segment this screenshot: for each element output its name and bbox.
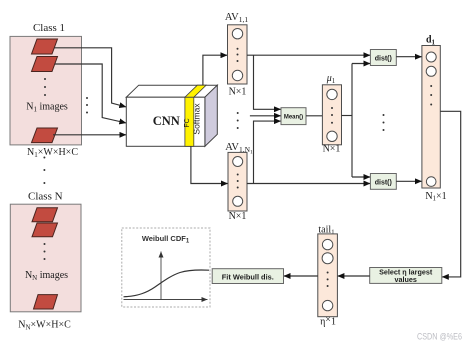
AV1N1 dots: [237, 174, 239, 189]
CNN box top face: [126, 85, 217, 97]
fit weibull box: [212, 269, 283, 284]
d1 box: [422, 46, 440, 189]
weibull cdf curve: [124, 270, 210, 297]
svg-text:N×1: N×1: [229, 87, 247, 98]
tail1 circle 2: [322, 253, 333, 264]
FC layer yellow strip top: [185, 85, 206, 97]
class N box: [10, 204, 81, 312]
wire branch AV11 down to Mean: [254, 55, 282, 109]
select box: [370, 268, 442, 284]
d1 dots: [430, 85, 432, 106]
image 3 of class 1: [32, 128, 58, 143]
svg-text:NN images: NN images: [25, 270, 68, 282]
wire dist1 to d1: [396, 56, 422, 58]
wire image1 to CNN: [55, 48, 127, 107]
CNN box front face: [126, 97, 205, 146]
dots between AV boxes: [237, 112, 239, 129]
d1 circle 1: [426, 52, 436, 62]
svg-text:CSDN @%E6: CSDN @%E6: [417, 332, 462, 342]
wire dist2 to d1: [396, 180, 422, 182]
wire image3 to CNN: [53, 134, 126, 136]
svg-text:N1×1: N1×1: [425, 191, 446, 203]
wire image2 to CNN: [55, 64, 127, 123]
CNN box side face: [205, 85, 217, 146]
image 3 of class N: [34, 295, 58, 309]
dist1 box: [370, 50, 396, 66]
mu1 bottom circle: [327, 131, 337, 141]
tail1 dots: [327, 272, 329, 288]
svg-text:FC: FC: [184, 118, 191, 127]
svg-text:CNN: CNN: [153, 114, 180, 128]
wire tail to fit box: [284, 275, 318, 277]
wire Mean to mu: [306, 115, 322, 117]
image 2 of class N: [32, 223, 58, 237]
wire CNN to AV11: [203, 55, 228, 85]
tail1 box: [318, 234, 338, 317]
image 2 of class 1: [32, 57, 58, 72]
dots between class boxes: [43, 157, 45, 185]
mu1 box: [322, 85, 341, 145]
wire AV11 to dist1: [247, 54, 370, 56]
tail1 bottom circle: [322, 300, 332, 310]
wire select to tail: [337, 275, 369, 277]
svg-text:Class N: Class N: [28, 191, 63, 203]
svg-text:N×1: N×1: [323, 143, 341, 154]
wire bus to dist1: [352, 63, 370, 65]
AV1N1 bottom circle: [233, 196, 243, 206]
plot y axis: [160, 252, 162, 300]
dist2 box: [370, 174, 396, 190]
class 1 box: [10, 36, 82, 144]
AV11 box: [228, 25, 248, 84]
wire d1 to select box: [440, 111, 460, 277]
svg-text:dist(): dist(): [375, 56, 392, 63]
dots in class N box: [44, 243, 46, 260]
wire CNN to AV1N1: [191, 146, 228, 183]
tail1 circle 1: [322, 239, 332, 249]
AV11 bottom circle: [232, 70, 242, 80]
AV1N1 box: [228, 152, 247, 211]
svg-text:N×1: N×1: [229, 211, 247, 222]
svg-text:N1 images: N1 images: [26, 102, 68, 114]
wire middle to Mean: [250, 115, 281, 117]
wire AV1N1 to dist2: [247, 183, 371, 185]
wire mu to vertical bus: [342, 115, 353, 117]
image 1 of class 1: [32, 39, 58, 54]
FC layer yellow strip front: [185, 97, 194, 146]
mu1 dots: [331, 107, 333, 124]
dots between dist boxes: [383, 114, 385, 131]
plot x axis: [124, 299, 208, 301]
mu1 top circle: [327, 89, 337, 99]
svg-text:Fit Weibull dis.: Fit Weibull dis.: [222, 273, 274, 282]
AV11 dots: [237, 48, 239, 62]
svg-text:dist(): dist(): [375, 179, 392, 186]
AV11 top circle: [232, 29, 242, 39]
svg-text:Weibull CDF1: Weibull CDF1: [142, 234, 190, 245]
image 1 of class N: [32, 208, 58, 222]
weibull cdf plot box: [122, 228, 210, 307]
d1 circle 2: [426, 66, 436, 76]
AV1N1 top circle: [233, 157, 243, 167]
wire bus to dist2: [352, 176, 370, 178]
dots in class 1 box: [44, 78, 46, 96]
svg-text:Mean(): Mean(): [284, 115, 303, 121]
vertical bus mu to dist boxes: [351, 64, 353, 178]
Mean() box: [281, 108, 306, 125]
svg-text:values: values: [395, 275, 417, 284]
svg-text:Softmax: Softmax: [191, 103, 201, 135]
dots right of class 1 box: [86, 97, 88, 114]
svg-text:Class 1: Class 1: [33, 22, 65, 34]
d1 bottom circle: [426, 177, 436, 187]
wire branch AV1N1 up to Mean: [254, 121, 282, 183]
